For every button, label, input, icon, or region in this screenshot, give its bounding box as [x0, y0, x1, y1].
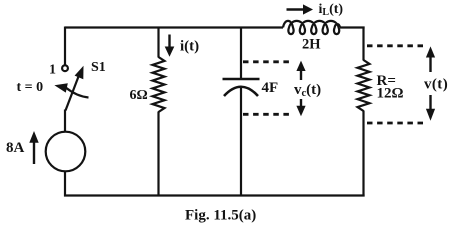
svg-text:vc(t): vc(t): [294, 82, 321, 99]
svg-text:8A: 8A: [6, 140, 25, 156]
svg-text:iL(t): iL(t): [319, 2, 344, 18]
svg-text:t = 0: t = 0: [17, 80, 44, 95]
svg-text:Fig. 11.5(a): Fig. 11.5(a): [185, 208, 256, 224]
svg-text:12Ω: 12Ω: [377, 86, 404, 102]
svg-text:1: 1: [49, 63, 56, 78]
svg-text:v(t): v(t): [424, 77, 448, 93]
svg-text:2H: 2H: [302, 37, 321, 53]
svg-text:S1: S1: [91, 60, 106, 75]
svg-text:4F: 4F: [262, 80, 279, 96]
svg-text:6Ω: 6Ω: [130, 88, 148, 103]
svg-text:i(t): i(t): [180, 39, 199, 55]
